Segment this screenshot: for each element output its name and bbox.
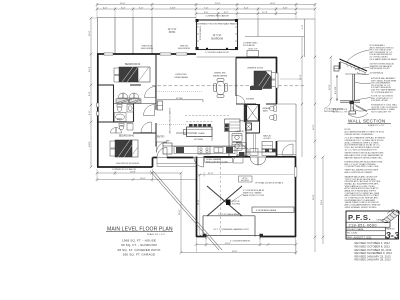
garage east wall dim extension (295, 238, 297, 255)
svg-text:21'-4": 21'-4" (208, 173, 214, 175)
bench foot of bed (250, 86, 262, 90)
svg-text:OPTIONAL 4X8 DECK W/ RAILS: OPTIONAL 4X8 DECK W/ RAILS (255, 182, 284, 185)
bed master (254, 71, 277, 89)
top dim line 1 (97, 4, 315, 6)
east wall strip lines (277, 154, 296, 156)
svg-text:WALL SECTION: WALL SECTION (348, 118, 385, 123)
svg-text:12'-0": 12'-0" (89, 30, 91, 36)
svg-text:24'-0": 24'-0" (140, 178, 146, 180)
east wall (276, 57, 278, 104)
svg-text:16'-0": 16'-0" (225, 243, 231, 245)
dim text left (rotated) (89, 30, 91, 147)
svg-text:12'-0": 12'-0" (313, 124, 315, 130)
window on garage east wall (294, 167, 297, 177)
svg-text:BEDROOM #3: BEDROOM #3 (125, 64, 141, 66)
svg-text:6'-0": 6'-0" (139, 7, 144, 9)
dashed ridge line (152, 85, 304, 87)
svg-text:12'-4": 12'-4" (262, 12, 268, 14)
svg-text:ELEC. F.P.: ELEC. F.P. (248, 49, 257, 51)
left dim line (90, 18, 92, 167)
top dim line 2 (97, 8, 315, 10)
svg-text:96 SQ. FT. - SUNROOM: 96 SQ. FT. - SUNROOM (121, 243, 157, 247)
svg-text:6'-0": 6'-0" (121, 7, 126, 9)
entry walls (176, 132, 196, 134)
svg-text:BATH: BATH (117, 118, 123, 121)
bedroom2 closet doors (111, 122, 152, 133)
foundation wall (349, 104, 356, 114)
svg-text:6'-8": 6'-8" (283, 7, 288, 9)
svg-text:26'-8": 26'-8" (313, 194, 315, 200)
svg-text:1/2" GYPSUM BOARD INT.: 1/2" GYPSUM BOARD INT. (371, 91, 394, 94)
bar stool row (189, 124, 211, 127)
truss hatch under roof (346, 63, 360, 72)
svg-text:1968 SQ. FT. - HOUSE: 1968 SQ. FT. - HOUSE (122, 238, 156, 242)
svg-text:P.F.S.: P.F.S. (348, 213, 371, 222)
east jog wall entry (152, 158, 154, 168)
garage X (207, 186, 242, 216)
svg-text:SCREENED PORCH W/ REMOVABLE PA: SCREENED PORCH W/ REMOVABLE PANELS (197, 23, 238, 26)
svg-text:ROOF ABOVE: ROOF ABOVE (243, 44, 256, 47)
top dim line 3 (196, 13, 296, 15)
leader curves (347, 50, 371, 117)
leader to right dim (280, 78, 302, 80)
diagonal leader lines (150, 171, 222, 250)
hall bath door (144, 105, 155, 116)
svg-text:SHOWER: SHOWER (246, 99, 255, 101)
svg-text:4" CONCRETE APRON: 4" CONCRETE APRON (230, 240, 251, 243)
svg-text:6'-0": 6'-0" (103, 7, 108, 9)
bedroom3 south wall (98, 84, 114, 86)
svg-text:AT 6'-0" O.C. TYP.: AT 6'-0" O.C. TYP. (333, 110, 348, 113)
svg-text:4" CONCRETE SLAB W/: 4" CONCRETE SLAB W/ (243, 189, 265, 192)
svg-text:26'-0": 26'-0" (179, 209, 181, 215)
svg-text:24'-0": 24'-0" (120, 3, 126, 5)
patio post lines (114, 18, 116, 55)
svg-text:14'-0": 14'-0" (215, 3, 221, 5)
window marks on west wall (97, 103, 99, 116)
entry door arc (157, 148, 167, 158)
svg-text:REVISED JANUARY 28, 2013: REVISED JANUARY 28, 2013 (355, 258, 392, 262)
closet rod lines (253, 134, 255, 152)
svg-text:BATH: BATH (263, 110, 269, 113)
rim joist dark (350, 101, 355, 104)
svg-text:14'-8": 14'-8" (130, 171, 136, 173)
svg-text:SUNROOM: SUNROOM (211, 39, 223, 41)
fire door arc + label (194, 158, 204, 168)
floor lines (340, 101, 360, 103)
svg-text:550 SQ. FT. GARAGE: 550 SQ. FT. GARAGE (123, 253, 155, 257)
svg-text:UNLESS NOTED OTHERWISE.: UNLESS NOTED OTHERWISE. (345, 134, 374, 136)
stoop below entry (157, 158, 196, 167)
dim text top (103, 3, 288, 14)
phone row box (346, 222, 390, 227)
svg-text:WWM ON 4" GRAVEL: WWM ON 4" GRAVEL (243, 192, 262, 195)
svg-text:24'-0": 24'-0" (321, 199, 323, 205)
svg-text:COVERED STOOP BELOW: COVERED STOOP BELOW (112, 169, 136, 171)
patio label (168, 29, 177, 34)
corner posts (196, 19, 239, 50)
svg-text:4'-0": 4'-0" (302, 25, 304, 29)
fascia (339, 62, 341, 69)
closet double doors bedroom3 (118, 87, 156, 99)
svg-text:VENTED ALUM. SOFFIT: VENTED ALUM. SOFFIT (370, 67, 391, 70)
dim text right/bottom (130, 74, 331, 253)
bed 2 (110, 140, 138, 157)
closet shelves hatched (116, 99, 141, 103)
svg-text:PATIO: PATIO (169, 31, 176, 34)
ceiling line (345, 73, 366, 75)
grade lines (355, 105, 368, 112)
svg-text:SCALE: 1/2" = 1'-0": SCALE: 1/2" = 1'-0" (368, 124, 385, 127)
X center block (226, 200, 231, 206)
svg-text:COVERED PATIO ABOVE: COVERED PATIO ABOVE (205, 15, 229, 18)
garage north wall (204, 156, 251, 158)
window marks on north wall (104, 53, 187, 55)
gutter box at eave (334, 66, 339, 71)
overhead dashes (185, 115, 230, 117)
note east of patio (324, 109, 344, 113)
svg-text:DINING RM /: DINING RM / (214, 73, 227, 75)
storage line (203, 215, 255, 217)
svg-text:EATING AREA: EATING AREA (213, 75, 227, 78)
toilet + sink owners (270, 106, 277, 120)
ref box on west wall (157, 101, 162, 110)
svg-text:42" ISLAND: 42" ISLAND (195, 132, 205, 135)
svg-text:14' X 12': 14' X 12' (213, 35, 222, 37)
svg-text:218-851-0690: 218-851-0690 (349, 223, 377, 227)
bottom-left dims under house (97, 172, 181, 174)
wall double line (353, 74, 355, 101)
svg-text:10'-4": 10'-4" (89, 66, 91, 72)
roof slope lines (340, 59, 368, 73)
svg-text:22'-0": 22'-0" (198, 199, 200, 205)
svg-text:CO DETECTORS PER LOCAL CODE.: CO DETECTORS PER LOCAL CODE. (345, 165, 380, 168)
hall door arcs (233, 144, 293, 163)
garage door jambs (206, 234, 260, 240)
bed 3 (114, 67, 150, 82)
page cell (384, 227, 386, 239)
svg-text:LINE OF VAULTED CLG ABOVE: LINE OF VAULTED CLG ABOVE (169, 107, 172, 134)
dining table (214, 79, 228, 98)
owner suite walls (235, 58, 237, 97)
svg-text:6'-8": 6'-8" (89, 91, 91, 96)
linen cabinet with X (246, 123, 252, 130)
workbench box (252, 207, 294, 213)
south counter (163, 143, 246, 154)
svg-text:BEDROOM #2: BEDROOM #2 (119, 136, 135, 138)
svg-text:OWNERS SUITE: OWNERS SUITE (247, 68, 264, 70)
svg-text:SIZES NOMINAL, VERIFY W/ MFG.: SIZES NOMINAL, VERIFY W/ MFG. (345, 206, 378, 209)
svg-text:KITCHEN: KITCHEN (194, 139, 204, 141)
svg-text:5 X 10 STORAGE AREA: 5 X 10 STORAGE AREA (218, 213, 240, 216)
svg-text:AUGUST 2, 2012: AUGUST 2, 2012 (354, 237, 373, 240)
svg-text:DESIGN: DESIGN (377, 220, 385, 222)
toilet (117, 107, 122, 112)
svg-text:FIRE DOOR SELF CLOSE: FIRE DOOR SELF CLOSE (206, 161, 228, 163)
svg-text:68 SQ. FT. COVERED PATIO: 68 SQ. FT. COVERED PATIO (118, 248, 162, 252)
svg-text:NO. 12082: NO. 12082 (347, 233, 358, 235)
svg-text:14' X 12': 14' X 12' (168, 29, 177, 31)
svg-text:5'-6": 5'-6" (89, 110, 91, 115)
svg-text:7'-0": 7'-0" (204, 7, 209, 9)
svg-text:BASE SLOPE TO DOOR: BASE SLOPE TO DOOR (243, 194, 265, 197)
owner door arc (237, 96, 246, 105)
garage double doors to hall (250, 157, 266, 165)
svg-text:TILE TO DAYLIGHT TYP.: TILE TO DAYLIGHT TYP. (371, 110, 392, 113)
svg-text:5040 WINDOW W/ EGRESS: 5040 WINDOW W/ EGRESS (116, 163, 140, 165)
closet wall (113, 85, 115, 122)
garage south wall segments (196, 236, 206, 238)
svg-text:FOOTING: FOOTING (232, 203, 241, 205)
svg-text:DINING AREA: DINING AREA (174, 76, 188, 79)
vanity (127, 105, 134, 113)
patio top edge (97, 17, 196, 19)
svg-text:36" REF: 36" REF (176, 98, 184, 100)
garage west wall (196, 157, 198, 238)
svg-text:16'-0": 16'-0" (270, 3, 276, 5)
dashed ridge vertical in garage (220, 158, 222, 235)
svg-text:LAUNDRY: LAUNDRY (235, 130, 245, 133)
elec fp box on great room wall (247, 51, 259, 57)
entry front wall (153, 157, 158, 159)
svg-text:16" O.C. W/ R-21 INSULATION TY: 16" O.C. W/ R-21 INSULATION TYP. (345, 148, 378, 151)
sunroom window ticks (196, 27, 238, 41)
revisions (355, 241, 393, 262)
svg-text:14'-8": 14'-8" (170, 7, 176, 9)
svg-text:8040 EGRESS: 8040 EGRESS (178, 48, 191, 50)
svg-text:R-30 INSUL. AT RIM: R-30 INSUL. AT RIM (371, 99, 388, 102)
svg-text:PROJECT NAME:: PROJECT NAME: (347, 228, 364, 231)
dotted line kitchen (157, 90, 203, 92)
window labels above north wall (141, 46, 191, 50)
svg-text:BATTERY BACKUP, INTERCONNECTED: BATTERY BACKUP, INTERCONNECTED. (345, 156, 383, 159)
svg-text:AND LOCATIONS W/ OWNER.: AND LOCATIONS W/ OWNER. (345, 171, 373, 174)
svg-text:SCREEN PANELS: SCREEN PANELS (199, 25, 202, 40)
kitchen north counter line (157, 99, 203, 101)
svg-text:12' SLIDING GLASS DOOR: 12' SLIDING GLASS DOOR (205, 51, 229, 54)
bath 3 fixtures below (119, 124, 133, 131)
svg-text:12'-8": 12'-8" (329, 84, 331, 90)
sunroom walls (197, 20, 238, 50)
bath walls (98, 121, 133, 123)
bottom dim lines below garage (196, 244, 296, 246)
garage notes (243, 182, 284, 198)
svg-text:DATE:: DATE: (347, 236, 353, 239)
title block outer box (346, 211, 399, 239)
top dim ticks (97, 3, 315, 20)
garage interior dim vertical (199, 175, 201, 236)
svg-text:8' WORKBENCH AREA: 8' WORKBENCH AREA (256, 209, 277, 212)
pantry closet (225, 119, 241, 132)
window master (275, 73, 278, 88)
svg-text:LIVING RM /: LIVING RM / (175, 74, 187, 76)
attic access box (239, 176, 253, 182)
south wall house (97, 166, 153, 168)
svg-text:3-3: 3-3 (386, 231, 400, 242)
pencil drawing top right (382, 209, 400, 223)
svg-text:ACCESS: ACCESS (241, 179, 249, 182)
svg-text:16' X 7' OVERHEAD GARAGE DOOR: 16' X 7' OVERHEAD GARAGE DOOR (213, 228, 249, 231)
island (187, 127, 213, 137)
north wall bedrooms (97, 53, 196, 55)
svg-text:CLOSET: CLOSET (263, 138, 271, 140)
svg-text:3'-6": 3'-6" (204, 12, 209, 14)
left dim with arrows (336, 75, 338, 101)
garage east wall (295, 157, 297, 238)
sunroom label (211, 35, 223, 41)
foundation hatch (351, 105, 353, 110)
hall bench/closet row above garage wall (237, 149, 277, 156)
svg-text:ENTRY: ENTRY (157, 137, 165, 139)
svg-text:2X SUB FASCIA: 2X SUB FASCIA (370, 72, 384, 75)
svg-text:ICE & WATER SHIELD AT EAVES: ICE & WATER SHIELD AT EAVES (370, 58, 398, 61)
great room north wall (236, 57, 277, 59)
svg-text:SCALE: 1/4" = 1'-0": SCALE: 1/4" = 1'-0" (147, 233, 165, 236)
bedroom2 north wall (133, 132, 156, 134)
project rows (346, 226, 385, 228)
text blocks wall section (333, 44, 398, 113)
roof line above label (243, 42, 258, 47)
interior garage dim line (197, 174, 296, 176)
svg-text:8040 EGRESS: 8040 EGRESS (141, 48, 154, 50)
kitchen door arcs (157, 142, 247, 153)
long corridor wall (155, 54, 157, 110)
east covered patio (277, 104, 296, 157)
west wall (97, 54, 99, 167)
svg-text:24'-0": 24'-0" (232, 251, 238, 253)
right dim lines (301, 37, 303, 157)
dotted line hall (157, 124, 186, 126)
patio west edge (96, 18, 98, 55)
svg-text:8'-1 1/8": 8'-1 1/8" (335, 86, 337, 94)
laundry sink (239, 152, 245, 157)
garage west wall dim extension (196, 238, 198, 253)
tub (114, 113, 126, 122)
svg-text:6'-2": 6'-2" (224, 12, 229, 14)
svg-text:14'-8": 14'-8" (89, 141, 91, 147)
svg-text:6'-4": 6'-4" (244, 7, 249, 9)
patio slab edge great room (197, 56, 237, 58)
